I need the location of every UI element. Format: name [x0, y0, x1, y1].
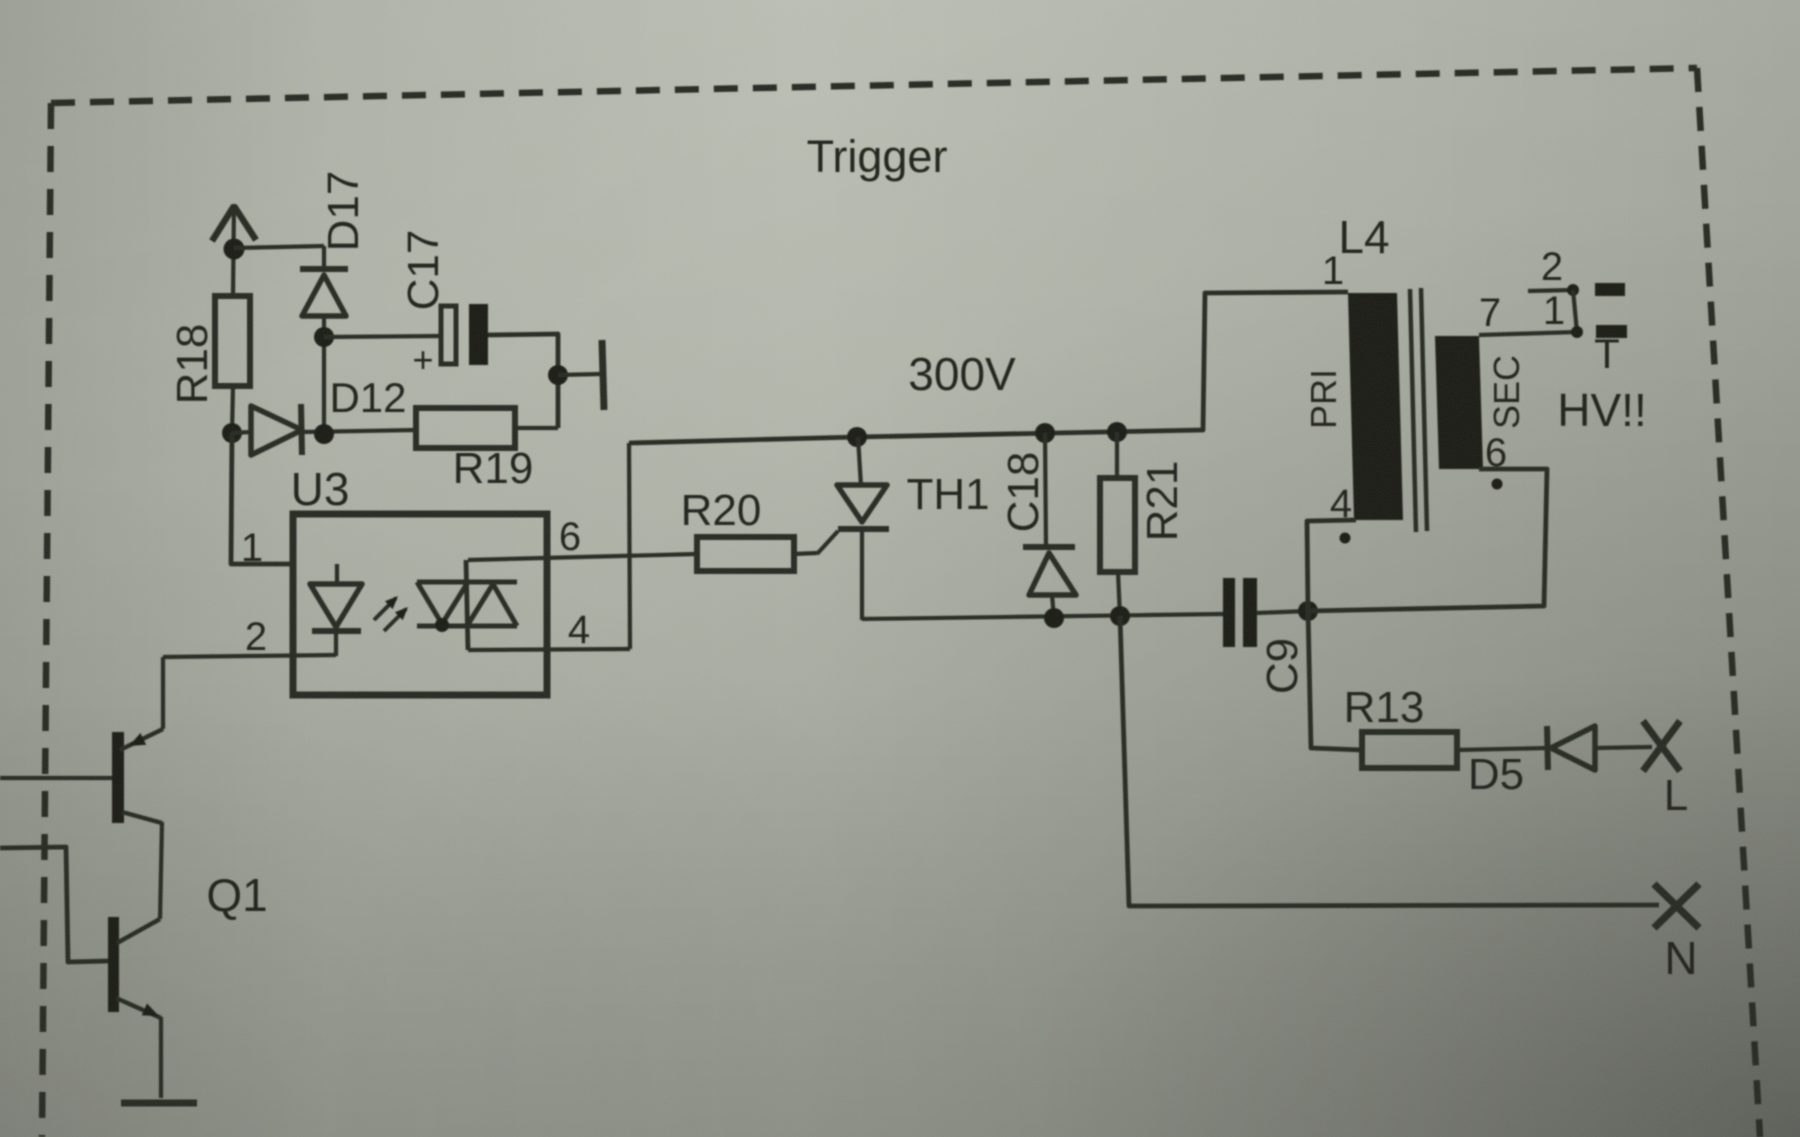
wire U3 pin1 internal — [335, 564, 339, 585]
wire primary pin4 — [1307, 520, 1356, 611]
wire T link — [1573, 290, 1577, 332]
junction dot ground branch — [548, 365, 568, 385]
ground Q1 — [121, 1100, 197, 1107]
wire R21 top — [1115, 432, 1119, 479]
wire U3 pin2 — [163, 655, 336, 657]
transformer L4 primary — [1348, 293, 1403, 520]
triac inside U3 — [417, 582, 517, 626]
wire bus drop to U3 pin4 — [629, 443, 630, 649]
junction dot supply — [224, 239, 245, 260]
junction dot C18 top — [1035, 423, 1055, 443]
resistor R18 — [215, 296, 250, 386]
capacitor C9 — [1223, 578, 1257, 647]
wire Q1 lower base input — [0, 847, 108, 962]
wire TH1 cathode — [860, 529, 864, 620]
phase dot secondary — [1492, 479, 1503, 490]
terminal X L — [1643, 721, 1680, 771]
wire supply to D17 — [234, 246, 324, 248]
wire Q1 emitter — [159, 1017, 163, 1098]
transformer L4 secondary — [1435, 336, 1483, 469]
wire R21 bottom — [1118, 572, 1120, 617]
wire C9 node to R13 — [1308, 611, 1362, 750]
terminal X N — [1654, 884, 1699, 928]
wire R19 right — [515, 426, 558, 430]
wire Q1 base input — [0, 776, 112, 780]
wire C9 right — [1257, 611, 1308, 613]
wire D12 to R19 — [303, 430, 416, 432]
wire to C17 — [324, 336, 441, 337]
junction dot C9 node — [1298, 601, 1318, 621]
bus 300V — [629, 292, 1348, 443]
junction dot R21 bottom — [1110, 606, 1130, 626]
wire T pin2 — [1528, 290, 1573, 291]
resistor R20 — [697, 537, 794, 571]
ground C17 — [602, 340, 604, 410]
transistor Q1 lower — [108, 917, 161, 1018]
junction dot D12 node — [314, 424, 334, 444]
junction dot T pin2 — [1567, 284, 1579, 296]
dashed enclosure border (top edge) — [51, 68, 1697, 103]
transformer core — [1410, 288, 1427, 532]
capacitor C17 — [441, 304, 488, 365]
wire Q1 interstage — [160, 822, 162, 919]
junction dot C18 bottom — [1044, 608, 1064, 628]
resistor R13 — [1362, 732, 1457, 768]
junction dot C17 branch — [314, 327, 334, 347]
junction dot R21 top — [1107, 422, 1127, 442]
wire R20 to TH1 gate — [794, 531, 838, 554]
opto-coupler U3 body — [293, 514, 547, 695]
bottom bus wire — [862, 614, 1223, 619]
wire to D12 — [232, 432, 251, 433]
diode D5 — [1547, 726, 1595, 770]
junction dot TH1 anode — [847, 427, 867, 447]
resistor R21 — [1100, 478, 1135, 572]
wire U3 pin6 to R20 — [468, 554, 697, 560]
dashed enclosure border (left edge) — [42, 103, 51, 1137]
LED inside U3 — [310, 584, 362, 631]
LED light arrows — [374, 596, 408, 631]
wire D5 to L — [1595, 747, 1652, 748]
wire node to U3 pin1 — [231, 433, 293, 564]
supply arrow node — [212, 204, 256, 296]
transistor Q1 upper — [112, 729, 163, 823]
wire D17 to D12 node — [322, 316, 326, 434]
wire U3 pin4 to bus — [468, 649, 630, 650]
wire to neutral — [1120, 616, 1659, 906]
thyristor TH1 — [837, 485, 889, 529]
wire C18 bottom — [1052, 595, 1054, 618]
wire secondary pin6 — [1308, 469, 1547, 611]
wire TH1 anode — [858, 437, 861, 486]
wire secondary pin7 — [1479, 332, 1577, 335]
phase dot primary — [1340, 533, 1351, 544]
diode D12 — [251, 404, 302, 455]
junction dot R18 bottom — [222, 423, 242, 443]
wire D17 anode lead — [322, 246, 326, 270]
wire R18 bottom — [232, 386, 233, 434]
dashed enclosure border (right edge) — [1697, 68, 1760, 1137]
diode C18 — [1023, 547, 1076, 595]
wire U3 pin2 to Q1 — [161, 657, 165, 729]
terminal bar T lower — [1596, 325, 1627, 338]
wire C18 top — [1045, 433, 1046, 547]
terminal bar T upper — [1595, 283, 1625, 296]
wire C17 to ground — [488, 334, 558, 428]
diode D17 — [300, 269, 348, 316]
wire U3 pin6 internal — [466, 560, 468, 650]
wire R13 to D5 — [1457, 748, 1548, 750]
junction dot T pin1 — [1571, 326, 1583, 338]
wire LED cathode — [334, 631, 338, 656]
wire ground tap — [558, 374, 600, 375]
resistor R19 — [416, 408, 515, 448]
junction dot triac apex — [435, 618, 449, 632]
